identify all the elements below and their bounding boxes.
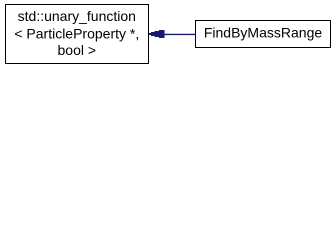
svg-text:std::unary_function: std::unary_function — [18, 8, 136, 24]
node std::unary_function box — [6, 5, 149, 64]
svg-text:bool >: bool > — [58, 42, 97, 58]
node FindByMassRange box — [196, 21, 331, 48]
svg-text:FindByMassRange: FindByMassRange — [204, 24, 322, 40]
inheritance arrowhead step 2 — [151, 32, 155, 36]
inheritance arrowhead step 1 (tip) — [149, 30, 165, 38]
inheritance arrowhead step 4 (back) — [159, 30, 165, 38]
svg-text:< ParticleProperty *,: < ParticleProperty *, — [14, 25, 139, 41]
inheritance arrowhead step 3 — [155, 31, 160, 37]
inheritance edge wire — [164, 33, 196, 35]
